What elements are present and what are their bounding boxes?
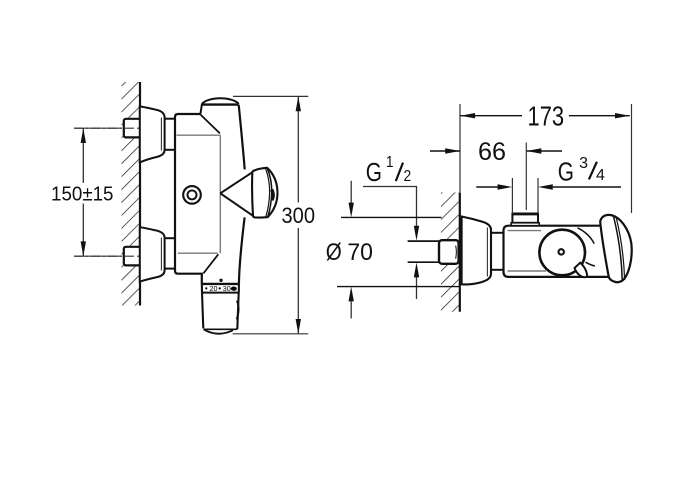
mixer body outline left figure	[175, 114, 202, 284]
svg-text:300: 300	[282, 203, 316, 228]
svg-text:150±15: 150±15	[51, 183, 114, 206]
button outer circle	[183, 186, 201, 204]
wall face line left	[139, 82, 141, 306]
dimension 150±15	[51, 128, 121, 256]
wall face line right	[459, 192, 461, 311]
body right edge lower	[239, 217, 245, 284]
chamfer bottom	[203, 254, 218, 273]
front face top gray line	[177, 134, 221, 136]
svg-text:173: 173	[528, 101, 565, 132]
union nut square right figure	[439, 240, 459, 264]
cap base line	[202, 103, 239, 105]
body inner gray line top	[508, 230, 542, 232]
dimension 66	[430, 138, 562, 210]
handle lower cylinder	[202, 284, 239, 334]
centerline through bottom nut	[74, 255, 142, 257]
svg-text:4: 4	[596, 167, 605, 184]
front face right gray line	[219, 135, 221, 253]
knob cone top line	[220, 172, 252, 193]
union nut square top	[124, 119, 141, 138]
dimension 300	[233, 96, 315, 333]
cap dome	[202, 98, 239, 104]
supply pipe stub lines	[408, 241, 439, 262]
shoulder arc bottom	[586, 262, 595, 266]
svg-text:Ø: Ø	[326, 239, 342, 266]
svg-text:30: 30	[223, 284, 231, 293]
thermostat dial circle	[539, 230, 585, 276]
svg-text:70: 70	[347, 239, 373, 266]
body right figure	[504, 226, 611, 277]
chamfer top	[200, 115, 220, 134]
shoulder arc top	[578, 228, 595, 244]
cap left edge	[200, 104, 202, 114]
svg-text:3: 3	[579, 155, 588, 172]
escutcheon bottom	[140, 227, 165, 281]
knob cone bottom line	[220, 193, 253, 216]
centerline through top nut	[74, 127, 142, 129]
front face bottom gray line	[178, 252, 218, 254]
escutcheon right figure	[462, 217, 491, 285]
union nut cylinder top	[165, 119, 175, 150]
escutcheon top	[140, 106, 165, 162]
shower outlet boss	[511, 214, 539, 226]
svg-text:G: G	[366, 157, 382, 187]
svg-text:20: 20	[210, 284, 218, 293]
body right edge upper	[239, 105, 245, 170]
union nut cylinder right figure	[491, 233, 504, 270]
knob left figure	[252, 168, 277, 218]
dimension 173	[460, 101, 632, 214]
label G1/2 with leader	[363, 154, 419, 299]
button inner circle	[188, 190, 197, 199]
dimension Ø70	[326, 181, 460, 319]
dial grip tab	[575, 263, 588, 278]
dimension G3/4	[476, 155, 621, 214]
svg-text:1: 1	[386, 154, 394, 171]
svg-text:2: 2	[404, 168, 412, 185]
wall hatching left	[122, 82, 140, 306]
dial center	[559, 249, 564, 254]
wall hatching right	[441, 192, 459, 311]
svg-text:66: 66	[478, 138, 506, 166]
temperature scale band	[202, 279, 239, 294]
body inner gray line bottom	[508, 270, 547, 272]
knob right figure	[600, 215, 632, 282]
svg-text:G: G	[558, 156, 574, 186]
union nut cylinder bottom	[165, 238, 175, 268]
union nut square bottom	[124, 247, 141, 266]
